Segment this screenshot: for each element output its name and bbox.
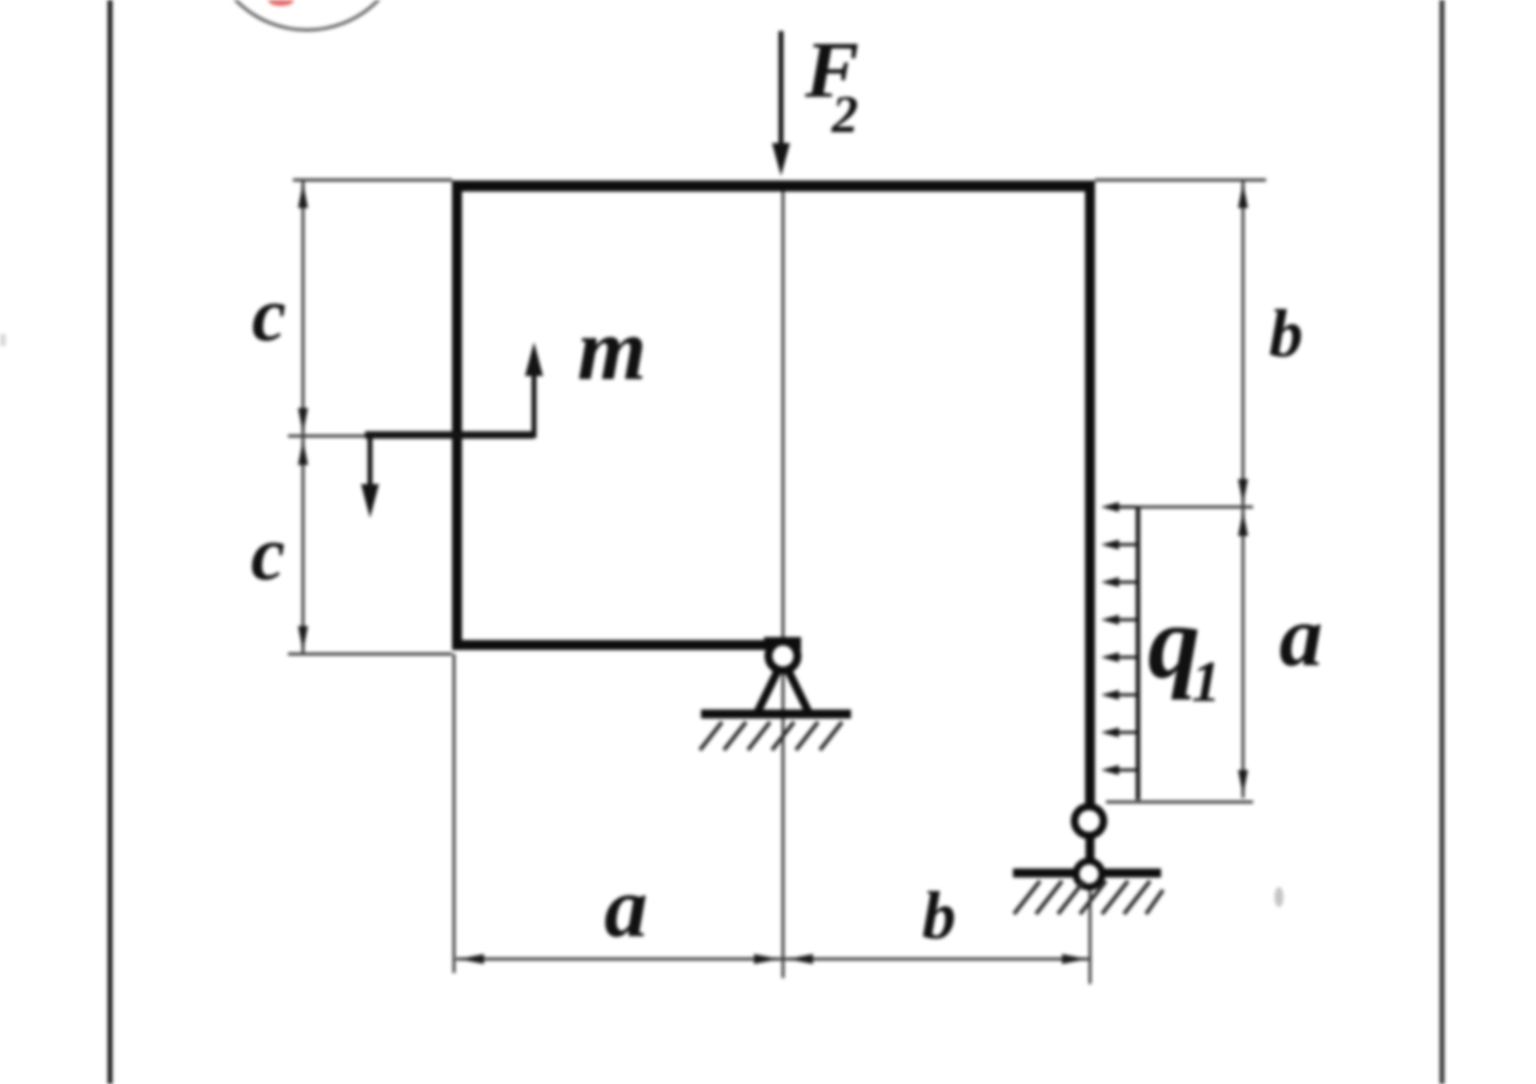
svg-text:a: a xyxy=(604,858,648,955)
svg-text:b: b xyxy=(1269,295,1303,371)
svg-text:a: a xyxy=(1279,587,1323,684)
svg-text:c: c xyxy=(251,510,285,596)
svg-text:1: 1 xyxy=(1192,649,1221,714)
svg-text:b: b xyxy=(922,877,956,953)
svg-text:2: 2 xyxy=(831,86,859,144)
svg-text:c: c xyxy=(252,271,286,357)
svg-text:m: m xyxy=(577,301,646,399)
